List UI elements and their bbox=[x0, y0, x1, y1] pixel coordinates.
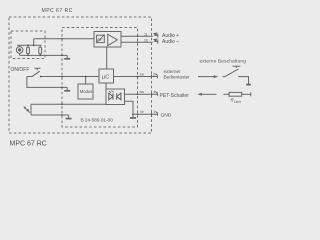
arrowhead ext taster bbox=[214, 75, 219, 78]
op-amp U1 box bbox=[94, 32, 121, 48]
inner dashed box PCB bbox=[62, 28, 138, 128]
node mic rail junctions bbox=[27, 44, 29, 46]
svg-text:1: 1 bbox=[153, 110, 155, 114]
wire uC to optocoupler bbox=[105, 83, 107, 89]
svg-text:Audio –: Audio – bbox=[162, 39, 179, 45]
svg-text:µC: µC bbox=[102, 75, 109, 81]
node audio edge dots bbox=[137, 35, 139, 43]
svg-text:MPC 67 RC: MPC 67 RC bbox=[10, 141, 47, 148]
optocoupler U2 box bbox=[106, 89, 125, 105]
node PCB edge dots lower bbox=[61, 103, 63, 105]
connector plug audio + bbox=[154, 33, 158, 38]
outer dashed box MPC 67 RC module bbox=[9, 17, 152, 133]
wire riser to amp bbox=[33, 39, 35, 45]
svg-text:4: 4 bbox=[153, 90, 155, 94]
wire to resistor bbox=[223, 93, 229, 95]
wire A-B left vertical bbox=[30, 104, 32, 115]
terminal tick bbox=[250, 92, 252, 96]
wire switch left branch bbox=[27, 77, 67, 88]
pin 5 tick bbox=[152, 74, 158, 79]
ground opto bbox=[132, 114, 134, 117]
wire mic stubs bbox=[20, 45, 41, 55]
wire ext taster lead bbox=[198, 76, 215, 78]
svg-text:B 24-589.01-00: B 24-589.01-00 bbox=[81, 117, 114, 122]
svg-text:externe Beschaltung: externe Beschaltung bbox=[200, 58, 247, 63]
svg-text:MPC 67 RC: MPC 67 RC bbox=[42, 8, 73, 14]
wire Modus to uC wire bbox=[85, 77, 87, 85]
terminal bar bbox=[246, 84, 251, 86]
wire amp to uC bbox=[106, 47, 108, 69]
connector plug audio - bbox=[154, 39, 158, 44]
wire mic to amp bbox=[34, 38, 94, 40]
node PCB edge dots bbox=[61, 38, 63, 40]
wire GND bbox=[133, 113, 157, 115]
pin 4 tick bbox=[152, 91, 158, 96]
node switch out bbox=[40, 76, 42, 78]
svg-text:PET-Schalter: PET-Schalter bbox=[160, 93, 190, 99]
mic dashed box bbox=[11, 31, 45, 59]
wire A mode line bbox=[31, 103, 106, 105]
wire B to ground bbox=[31, 114, 69, 116]
svg-text:Modus: Modus bbox=[80, 89, 93, 94]
wire audio + bbox=[121, 35, 153, 37]
phototransistor inside opto bbox=[117, 93, 121, 100]
wire ext PET lead bbox=[201, 93, 217, 95]
wire opto to PET-Schalter bbox=[125, 93, 158, 95]
svg-text:5: 5 bbox=[153, 72, 155, 76]
svg-text:Bedientaster: Bedientaster bbox=[164, 74, 191, 79]
uC box bbox=[99, 69, 114, 83]
wire resistor right bbox=[242, 93, 251, 95]
svg-text:GND: GND bbox=[161, 112, 172, 118]
wire mic top rail bbox=[17, 44, 41, 46]
Modus box bbox=[78, 84, 93, 99]
svg-text:ws: ws bbox=[140, 90, 145, 94]
ground switch bbox=[66, 87, 68, 90]
wire uC to ext. Bedientaster bbox=[114, 76, 158, 78]
capacitor C2 bbox=[39, 47, 42, 54]
switch S2 external button bbox=[225, 66, 241, 77]
wire audio - bbox=[121, 41, 153, 43]
node arrow blob bbox=[26, 109, 28, 111]
wire opto to GND node bbox=[125, 101, 134, 114]
svg-text:10: 10 bbox=[144, 39, 148, 43]
pin ticks at cable boundary bbox=[152, 74, 158, 117]
AF gain block bbox=[97, 35, 105, 42]
amp triangle bbox=[108, 34, 118, 45]
wire mic bottom rail bbox=[20, 54, 68, 56]
arrowhead ext PET bbox=[197, 93, 202, 96]
ground wire B bbox=[68, 115, 70, 118]
switch S1 ON/OFF bbox=[27, 76, 32, 78]
wire switch to uC bbox=[41, 76, 99, 78]
pin 1 tick bbox=[152, 111, 158, 116]
svg-text:ON/OFF: ON/OFF bbox=[11, 67, 30, 73]
LED inside opto bbox=[109, 93, 113, 100]
ground mic bbox=[66, 55, 68, 58]
microphone M1 bbox=[16, 47, 23, 54]
svg-text:Limit: Limit bbox=[234, 100, 241, 104]
resistor R Limit bbox=[229, 92, 242, 96]
svg-text:11: 11 bbox=[144, 33, 148, 37]
arrow adjust symbol bbox=[24, 107, 30, 113]
svg-text:sw: sw bbox=[140, 72, 145, 76]
capacitor C1 bbox=[27, 47, 30, 54]
